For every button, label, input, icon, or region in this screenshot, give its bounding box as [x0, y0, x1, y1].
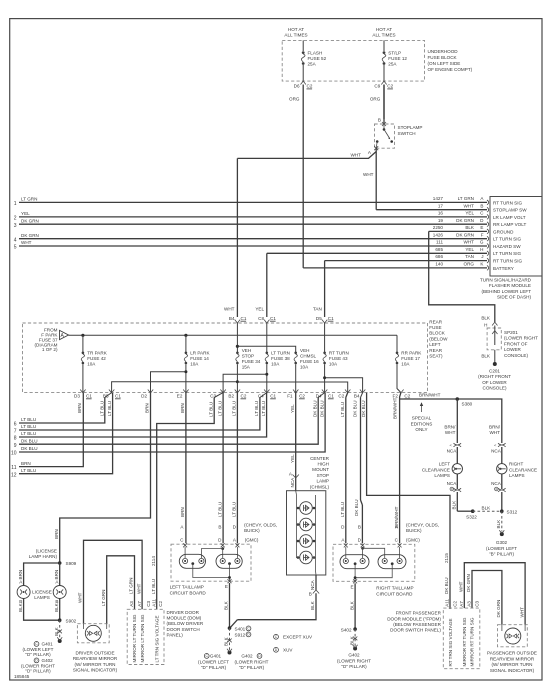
svg-text:(BELOW: (BELOW	[429, 336, 448, 341]
svg-text:140: 140	[435, 262, 443, 267]
svg-text:LT GRN: LT GRN	[129, 578, 134, 594]
svg-text:G402: G402	[348, 653, 360, 658]
svg-text:"D" PILLAR): "D" PILLAR)	[201, 665, 227, 670]
svg-text:ALL TIMES: ALL TIMES	[284, 33, 307, 38]
svg-text:SIGNAL INDICATOR): SIGNAL INDICATOR)	[490, 668, 535, 673]
svg-text:HOT AT: HOT AT	[376, 27, 392, 32]
svg-text:OF LOWER: OF LOWER	[482, 380, 507, 385]
svg-text:C2: C2	[387, 84, 393, 89]
svg-text:DK BLU: DK BLU	[21, 446, 38, 451]
svg-text:FUSE 43: FUSE 43	[329, 356, 348, 361]
svg-text:FUSE 42: FUSE 42	[87, 356, 106, 361]
svg-text:(CHMSL): (CHMSL)	[310, 484, 330, 489]
svg-text:25A: 25A	[388, 62, 397, 67]
svg-text:BLK: BLK	[224, 600, 229, 610]
svg-text:WHT: WHT	[363, 172, 374, 177]
svg-text:(CHEVY, OLDS,: (CHEVY, OLDS,	[406, 523, 439, 528]
svg-text:CIRCUIT BOARD: CIRCUIT BOARD	[376, 592, 413, 597]
fuse LR PARK FUSE 14 10A	[185, 335, 187, 352]
wire TAN row J down to fuse block	[324, 261, 326, 317]
license lamp left	[17, 586, 30, 599]
svg-text:"D" PILLAR): "D" PILLAR)	[341, 664, 367, 669]
svg-text:STOP: STOP	[317, 473, 329, 478]
fuse TR PARK FUSE 42 10A	[82, 335, 84, 352]
svg-text:REAR: REAR	[429, 319, 442, 324]
wht wire from switch	[375, 148, 377, 210]
svg-text:LT BLU: LT BLU	[340, 502, 345, 517]
left clearance lamps	[452, 464, 462, 474]
connector X marks	[344, 543, 348, 547]
internal link LR PARK to D2	[151, 372, 186, 393]
svg-text:YEL: YEL	[290, 454, 295, 463]
row G HAZARD SW	[19, 240, 521, 249]
ground G401/G402	[228, 651, 232, 655]
svg-text:BRN: BRN	[180, 507, 185, 517]
svg-text:BLK: BLK	[224, 636, 229, 646]
svg-text:ST/LP: ST/LP	[388, 51, 401, 56]
svg-text:FUSE 17: FUSE 17	[401, 356, 420, 361]
svg-text:YEL: YEL	[465, 211, 474, 216]
svg-text:DK BLU: DK BLU	[21, 438, 38, 443]
bulb oval left	[179, 554, 205, 568]
svg-text:LT BLU: LT BLU	[107, 401, 112, 416]
svg-text:LT BLU: LT BLU	[232, 502, 237, 517]
legend D xuv	[274, 647, 279, 652]
bottom connector C2	[345, 390, 350, 393]
svg-text:LT TRN SIG VOLTAGE: LT TRN SIG VOLTAGE	[154, 615, 159, 662]
node S402	[353, 627, 357, 631]
bottom connector C4 C1	[264, 390, 269, 393]
fuse VEH STOP FUSE 34 15A	[236, 352, 239, 355]
fuse FLASH FUSE 52 25A	[302, 51, 305, 54]
svg-text:(BEHIND LOWER LEFT: (BEHIND LOWER LEFT	[481, 289, 531, 294]
svg-text:B: B	[358, 525, 361, 530]
svg-text:C201: C201	[489, 369, 500, 374]
svg-text:BLK: BLK	[349, 635, 354, 645]
svg-text:4: 4	[14, 237, 17, 243]
inline connector right NCA	[498, 443, 506, 447]
svg-text:NCA: NCA	[290, 477, 295, 488]
svg-text:DRIVER DOOR: DRIVER DOOR	[167, 610, 200, 615]
internal wires	[184, 547, 186, 559]
svg-text:S402: S402	[341, 627, 352, 632]
svg-text:C3: C3	[210, 394, 216, 399]
svg-text:DOOR MODULE ("FPDM): DOOR MODULE ("FPDM)	[387, 616, 441, 621]
svg-text:(W/ MIRROR TURN: (W/ MIRROR TURN	[75, 662, 116, 667]
svg-text:BRN: BRN	[77, 403, 82, 413]
svg-text:CIRCUIT BOARD: CIRCUIT BOARD	[170, 591, 207, 596]
license lamp right	[53, 586, 66, 599]
output bus to E	[193, 564, 230, 578]
svg-text:C9: C9	[374, 84, 380, 89]
svg-text:WHT: WHT	[464, 203, 475, 208]
svg-text:BLK: BLK	[54, 602, 59, 612]
wire LT GRN loop A3 to driver mirror	[107, 556, 135, 624]
svg-text:YEL: YEL	[21, 211, 30, 216]
svg-text:BRN: BRN	[54, 529, 59, 539]
svg-text:C1: C1	[86, 394, 92, 399]
svg-text:LAMP: LAMP	[316, 479, 329, 484]
svg-text:(BELOW PASSENGER: (BELOW PASSENGER	[393, 622, 441, 627]
row D RR LAMP VOLT	[19, 218, 526, 227]
svg-text:HOT AT: HOT AT	[288, 27, 304, 32]
svg-text:WHT: WHT	[78, 592, 83, 603]
fuse ST/LP FUSE 12 25A	[383, 51, 386, 54]
wire BLK to S401	[229, 583, 231, 628]
svg-text:FUSE BLOCK: FUSE BLOCK	[428, 55, 458, 60]
svg-text:LEFT: LEFT	[429, 342, 440, 347]
fuse RT TURN FUSE 43 10A	[323, 352, 326, 355]
bottom connector E2	[183, 390, 188, 393]
svg-text:B: B	[480, 203, 483, 208]
svg-text:SIGNAL INDICATOR): SIGNAL INDICATOR)	[73, 668, 118, 673]
svg-text:B: B	[378, 118, 381, 123]
svg-text:BLK: BLK	[452, 500, 457, 510]
svg-text:FUSE 38: FUSE 38	[271, 356, 290, 361]
row H LT TURN SIG	[267, 247, 522, 256]
svg-text:(GMC): (GMC)	[406, 538, 420, 543]
svg-text:WHT: WHT	[490, 430, 501, 435]
svg-text:17: 17	[438, 203, 444, 208]
svg-text:STOPLAMP SW: STOPLAMP SW	[493, 208, 527, 213]
svg-text:D3: D3	[74, 394, 80, 399]
svg-text:B5: B5	[103, 394, 109, 399]
svg-text:BRN: BRN	[54, 570, 59, 580]
svg-text:CLEARANCE: CLEARANCE	[422, 467, 450, 472]
bulb oval right	[216, 554, 242, 568]
bulb oval right	[378, 555, 406, 569]
svg-text:"B" PILLAR): "B" PILLAR)	[489, 552, 514, 557]
front passenger door module box	[443, 608, 480, 669]
svg-text:NCA: NCA	[310, 579, 315, 590]
feed to CHMSL fuse	[236, 345, 239, 348]
svg-text:LT BLU: LT BLU	[21, 431, 36, 436]
svg-text:FUSE 12: FUSE 12	[388, 56, 407, 61]
svg-text:E: E	[351, 585, 354, 590]
svg-text:WHT: WHT	[136, 583, 141, 594]
svg-text:S909: S909	[66, 561, 77, 566]
svg-text:LT BLU: LT BLU	[21, 417, 36, 422]
chmsl bulb 3	[297, 535, 316, 548]
svg-text:DK GRN: DK GRN	[496, 600, 501, 618]
internal link RT TURN to B4	[325, 378, 363, 393]
svg-text:NCA: NCA	[447, 449, 458, 454]
svg-text:G401: G401	[210, 654, 222, 659]
svg-text:"D" PILLAR): "D" PILLAR)	[239, 665, 265, 670]
svg-text:LR PARK: LR PARK	[190, 351, 210, 356]
wht down to rear fuse block B4	[236, 158, 238, 317]
special editions only note	[421, 403, 423, 412]
svg-text:NCA: NCA	[447, 481, 458, 486]
ground G401 license	[58, 639, 62, 643]
svg-text:10A: 10A	[271, 362, 280, 367]
svg-text:ALL TIMES: ALL TIMES	[372, 33, 395, 38]
svg-text:10A: 10A	[300, 365, 309, 370]
svg-text:LT TURN SIG: LT TURN SIG	[493, 251, 522, 256]
svg-text:2115: 2115	[444, 553, 449, 563]
wire YEL row H down to fuse block	[266, 253, 268, 317]
svg-text:BRN/WHT: BRN/WHT	[419, 393, 441, 398]
svg-text:FRONT PASSENGER: FRONT PASSENGER	[396, 611, 442, 616]
ground G402	[353, 647, 357, 651]
svg-text:C2: C2	[453, 600, 458, 606]
driver outside rearview mirror box	[77, 624, 109, 643]
svg-text:NCA: NCA	[491, 481, 502, 486]
svg-text:25A: 25A	[308, 62, 317, 67]
svg-text:10A: 10A	[190, 362, 199, 367]
svg-text:RIGHT TAILLAMP: RIGHT TAILLAMP	[376, 586, 413, 591]
svg-text:S902: S902	[66, 618, 77, 623]
svg-text:C2: C2	[307, 84, 313, 89]
svg-text:C1: C1	[270, 394, 276, 399]
svg-text:FUSE: FUSE	[429, 325, 441, 330]
svg-text:BRN/WHT: BRN/WHT	[393, 397, 398, 419]
svg-text:BRN: BRN	[180, 403, 185, 413]
svg-text:WHT: WHT	[459, 581, 464, 592]
svg-text:FLASH: FLASH	[308, 51, 323, 56]
svg-text:RR LAMP VOLT: RR LAMP VOLT	[493, 222, 526, 227]
svg-text:C4: C4	[258, 394, 264, 399]
svg-text:C1: C1	[241, 316, 247, 321]
svg-text:(RIGHT FRONT: (RIGHT FRONT	[478, 374, 511, 379]
svg-text:LT BLU: LT BLU	[254, 401, 259, 416]
svg-text:DK GRN: DK GRN	[456, 218, 474, 223]
node S902	[58, 618, 62, 622]
mirror turn signal lamp	[85, 625, 101, 641]
dashed BLK to ground	[59, 620, 61, 638]
svg-text:(LOWER LEFT: (LOWER LEFT	[198, 659, 229, 664]
svg-text:12: 12	[11, 472, 17, 478]
svg-text:LT BLU: LT BLU	[208, 402, 213, 417]
stoplamp switch box	[383, 85, 385, 125]
chmsl bulb 1	[297, 502, 316, 515]
svg-text:FLASHER MODULE: FLASHER MODULE	[489, 283, 531, 288]
svg-text:D2: D2	[141, 394, 147, 399]
bottom connector D4 C1	[322, 390, 327, 393]
svg-text:DRIVER OUTSIDE: DRIVER OUTSIDE	[75, 651, 114, 656]
svg-text:A11: A11	[445, 599, 450, 607]
svg-text:WHT: WHT	[21, 240, 32, 245]
svg-text:C1: C1	[270, 316, 276, 321]
underhood fuse block box	[282, 40, 424, 81]
svg-text:RT TURN SIG: RT TURN SIG	[493, 200, 523, 205]
dashed BLK S322 to S312	[473, 510, 502, 512]
splice pack SP201 box	[487, 328, 501, 350]
svg-text:E: E	[480, 225, 483, 230]
svg-text:185845: 185845	[14, 674, 30, 679]
svg-text:LT TURN: LT TURN	[271, 351, 290, 356]
bottom connector B4	[360, 390, 365, 393]
right branch down	[59, 563, 61, 586]
svg-text:TAN: TAN	[313, 307, 322, 312]
svg-text:LOWER: LOWER	[504, 347, 522, 352]
svg-text:RT TRN SIG VOLTAGE: RT TRN SIG VOLTAGE	[448, 618, 453, 666]
svg-text:C2: C2	[404, 394, 410, 399]
left taillamp circuit board box	[171, 544, 251, 581]
svg-text:G302: G302	[496, 540, 508, 545]
connector X marks	[183, 543, 187, 547]
right taillamp circuit board box	[333, 544, 415, 581]
svg-text:B: B	[309, 592, 312, 597]
svg-text:LT TURN SIG: LT TURN SIG	[493, 237, 522, 242]
svg-text:LT BLU: LT BLU	[232, 401, 237, 416]
svg-text:MIRROR RT TURN SIG: MIRROR RT TURN SIG	[470, 617, 475, 666]
node S909	[58, 561, 62, 565]
svg-text:LEFT TAILLAMP: LEFT TAILLAMP	[170, 585, 204, 590]
svg-text:RIGHT: RIGHT	[509, 462, 523, 467]
svg-text:YEL: YEL	[255, 307, 264, 312]
svg-text:B2: B2	[228, 394, 234, 399]
svg-text:2114: 2114	[151, 556, 156, 566]
right clearance lamps	[497, 464, 507, 474]
svg-text:8: 8	[14, 436, 17, 442]
internal link VEH STOP to C2	[237, 382, 347, 393]
svg-text:LT BLU: LT BLU	[217, 502, 222, 517]
svg-text:C3: C3	[475, 600, 480, 606]
internal buses	[296, 495, 298, 558]
wire BRN/WHT S380 to right chain	[457, 399, 502, 443]
svg-text:(LOWER RIGHT: (LOWER RIGHT	[235, 659, 269, 664]
svg-text:C2: C2	[241, 394, 247, 399]
svg-text:BLK: BLK	[310, 600, 315, 610]
dashed BLK down to G302	[501, 511, 503, 531]
chmsl bulb 2	[297, 518, 316, 531]
inline connector left NCA	[454, 443, 462, 447]
row F LT TURN SIG	[19, 232, 522, 241]
svg-text:D5: D5	[316, 316, 322, 321]
dashed BLK to ground	[354, 629, 356, 646]
svg-text:FUSE 34: FUSE 34	[242, 359, 261, 364]
wire 2114 LT BLU C3 to DDM	[157, 398, 215, 610]
row E GROUND	[429, 225, 514, 234]
svg-text:H: H	[480, 247, 483, 252]
svg-text:2250: 2250	[433, 225, 444, 230]
svg-text:UNDERHOOD: UNDERHOOD	[428, 49, 459, 54]
svg-text:D6: D6	[294, 84, 300, 89]
svg-text:LICENSE: LICENSE	[32, 590, 52, 595]
svg-text:BLK: BLK	[496, 519, 501, 529]
svg-text:ORG: ORG	[289, 97, 300, 102]
svg-text:(LOWER LEFT: (LOWER LEFT	[486, 546, 517, 551]
svg-text:DK BLU: DK BLU	[444, 577, 449, 594]
park feed bus	[69, 334, 398, 336]
svg-text:BRN: BRN	[18, 570, 23, 580]
fuse RR PARK FUSE 17 10A	[396, 335, 398, 352]
svg-text:SWITCH: SWITCH	[398, 131, 416, 136]
svg-text:S401: S401	[235, 626, 246, 631]
svg-text:LT GRN: LT GRN	[21, 197, 37, 202]
mirror turn signal lamp	[505, 628, 521, 644]
internal link LT TURN to C3	[223, 374, 267, 392]
svg-text:SEAT): SEAT)	[429, 354, 443, 359]
svg-text:G: G	[480, 240, 484, 245]
svg-text:G402: G402	[241, 654, 253, 659]
row C LR LAMP VOLT	[19, 211, 526, 220]
svg-text:REAR: REAR	[429, 348, 442, 353]
wire BRN/WHT to S380	[400, 398, 458, 400]
svg-text:BUICK): BUICK)	[244, 528, 260, 533]
svg-text:DK BLU: DK BLU	[354, 499, 359, 516]
connector C9 C2	[381, 81, 386, 84]
svg-text:FUSE 16: FUSE 16	[300, 359, 319, 364]
ground G302	[500, 532, 504, 536]
internal link VEH STOP to B5	[112, 382, 238, 393]
svg-text:BLK: BLK	[482, 505, 492, 510]
svg-text:DOOR SWITCH: DOOR SWITCH	[167, 627, 200, 632]
dashed BLK to ground	[229, 628, 231, 650]
output bus to E	[354, 564, 356, 582]
svg-text:DK GRN: DK GRN	[21, 233, 39, 238]
svg-text:XUV: XUV	[283, 648, 293, 653]
svg-text:H: H	[484, 322, 487, 327]
svg-text:DK BLU: DK BLU	[352, 400, 357, 417]
bottom connector D3 C1	[80, 390, 85, 393]
svg-text:7: 7	[14, 429, 17, 435]
svg-text:LEFT: LEFT	[439, 462, 450, 467]
svg-text:GROUND: GROUND	[493, 229, 514, 234]
turn signal/hazard flasher module box	[490, 197, 542, 277]
svg-text:ORG: ORG	[464, 262, 475, 267]
svg-text:LT BLU: LT BLU	[99, 401, 104, 416]
svg-text:DK BLU: DK BLU	[361, 400, 366, 417]
svg-text:EXCEPT XUV: EXCEPT XUV	[283, 635, 313, 640]
svg-text:SP201: SP201	[504, 330, 518, 335]
svg-text:C3: C3	[146, 600, 151, 606]
connector D6 C2	[301, 81, 306, 84]
svg-text:LT GRN: LT GRN	[458, 196, 474, 201]
svg-text:C1: C1	[115, 394, 121, 399]
svg-text:BATTERY: BATTERY	[493, 266, 514, 271]
node S401 / S912	[228, 626, 232, 630]
svg-text:10A: 10A	[401, 362, 410, 367]
svg-text:WHT: WHT	[351, 153, 362, 158]
svg-text:VEH: VEH	[242, 348, 251, 353]
svg-text:2: 2	[14, 216, 17, 222]
svg-text:WHT: WHT	[224, 307, 235, 312]
svg-text:LT BLU: LT BLU	[340, 402, 345, 417]
svg-text:BRN: BRN	[145, 403, 150, 413]
svg-text:S380: S380	[462, 402, 473, 407]
driver door module box	[127, 609, 164, 664]
chmsl bulb 4	[297, 551, 316, 564]
wire BRN/WHT left chain down	[456, 399, 458, 443]
svg-text:10: 10	[11, 451, 17, 457]
svg-text:686: 686	[435, 254, 443, 259]
svg-text:STOPLAMP: STOPLAMP	[398, 125, 423, 130]
svg-text:C1: C1	[328, 316, 334, 321]
svg-text:SIDE OF DASH): SIDE OF DASH)	[497, 295, 531, 300]
svg-text:OF ENGINE COMPT): OF ENGINE COMPT)	[428, 67, 473, 72]
svg-text:LT BLU: LT BLU	[151, 579, 156, 594]
svg-text:5: 5	[14, 245, 17, 251]
svg-text:ORG: ORG	[370, 97, 381, 102]
svg-text:LAMP HARN): LAMP HARN)	[29, 554, 58, 559]
svg-text:WHT: WHT	[464, 240, 475, 245]
svg-text:J: J	[481, 254, 483, 259]
svg-text:C2: C2	[299, 394, 305, 399]
svg-text:BUICK): BUICK)	[406, 528, 422, 533]
svg-text:DK GRN: DK GRN	[456, 232, 474, 237]
svg-text:(LOWER RIGHT: (LOWER RIGHT	[504, 336, 538, 341]
svg-text:C2: C2	[158, 600, 163, 606]
wire BLK row E to SP201	[429, 231, 495, 322]
svg-text:A3: A3	[129, 601, 134, 607]
svg-text:BLOCK: BLOCK	[429, 331, 446, 336]
svg-text:E2: E2	[177, 394, 183, 399]
svg-text:NCA: NCA	[491, 449, 502, 454]
bottom connector D2	[148, 390, 153, 393]
wire DK GRN loop A3 to passenger mirror	[472, 571, 502, 625]
